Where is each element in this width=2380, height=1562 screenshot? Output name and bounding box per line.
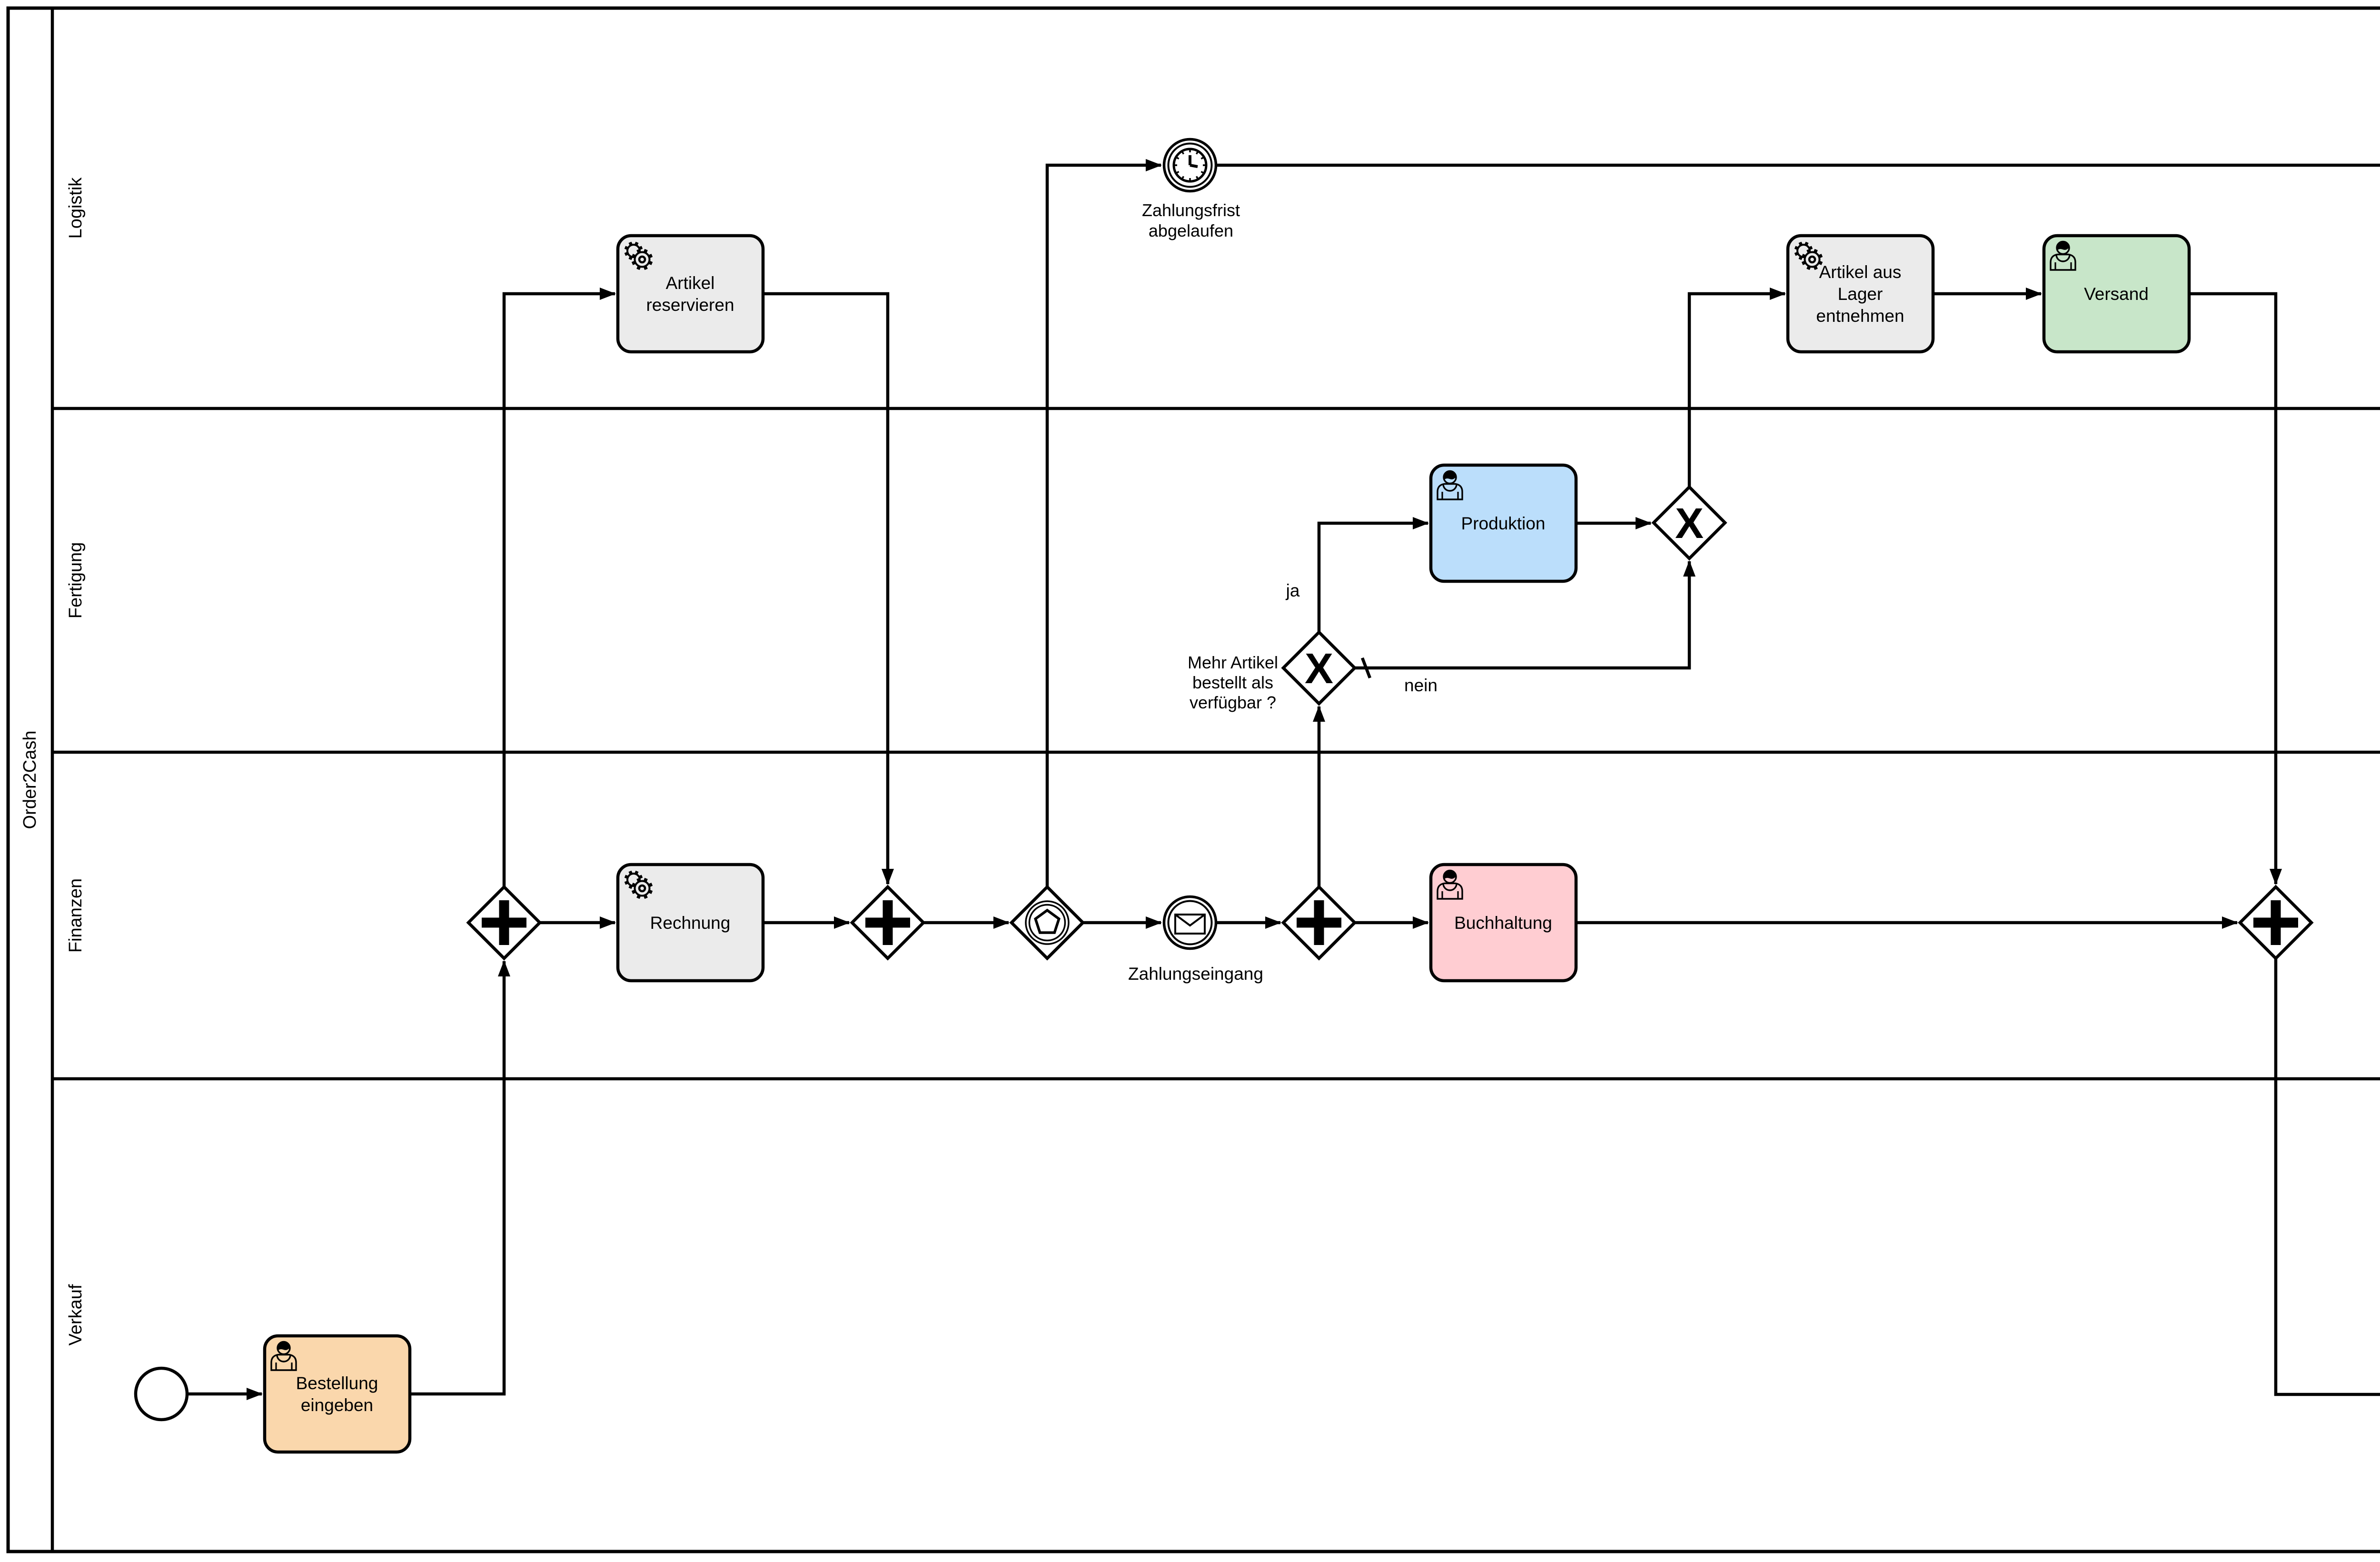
svg-text:reservieren: reservieren <box>646 295 734 315</box>
svg-text:Zahlungsfrist: Zahlungsfrist <box>1142 200 1240 220</box>
svg-text:Versand: Versand <box>2084 284 2149 304</box>
svg-text:X: X <box>1305 645 1333 693</box>
svg-text:bestellt als: bestellt als <box>1192 673 1273 692</box>
svg-text:eingeben: eingeben <box>301 1395 373 1415</box>
svg-text:Artikel aus: Artikel aus <box>1819 262 1902 282</box>
svg-text:Order2Cash: Order2Cash <box>20 731 40 829</box>
svg-text:Mehr Artikel: Mehr Artikel <box>1188 653 1278 672</box>
svg-text:Rechnung: Rechnung <box>650 913 731 933</box>
svg-text:Produktion: Produktion <box>1461 514 1546 533</box>
svg-text:ja: ja <box>1286 581 1300 600</box>
svg-text:nein: nein <box>1404 676 1438 695</box>
svg-text:Logistik: Logistik <box>66 177 86 239</box>
svg-text:Bestellung: Bestellung <box>296 1373 378 1393</box>
svg-text:Artikel: Artikel <box>666 273 715 293</box>
svg-text:verfügbar ?: verfügbar ? <box>1190 693 1276 712</box>
svg-text:X: X <box>1675 500 1704 547</box>
svg-text:entnehmen: entnehmen <box>1816 306 1904 326</box>
svg-text:Finanzen: Finanzen <box>66 878 86 953</box>
svg-text:Zahlungseingang: Zahlungseingang <box>1128 964 1263 984</box>
svg-text:Lager: Lager <box>1838 284 1883 304</box>
svg-text:Verkauf: Verkauf <box>66 1284 86 1345</box>
svg-text:abgelaufen: abgelaufen <box>1149 221 1233 240</box>
svg-text:Buchhaltung: Buchhaltung <box>1454 913 1552 933</box>
svg-text:Fertigung: Fertigung <box>66 542 86 619</box>
